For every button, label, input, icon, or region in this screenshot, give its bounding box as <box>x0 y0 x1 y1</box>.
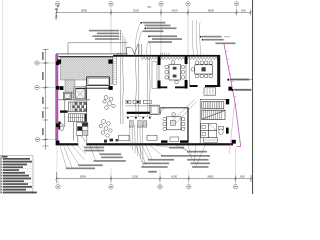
skylight outer frame <box>74 87 87 100</box>
stair flight 1 <box>68 102 86 112</box>
bottom wall door opening <box>78 143 86 146</box>
left rotated dim texts <box>42 52 44 135</box>
folding door zigzag <box>141 57 219 60</box>
wall next to X box <box>85 86 87 100</box>
small boxes under counter <box>129 121 146 127</box>
terrace parapet top wall <box>56 53 128 55</box>
room2 right wall <box>217 55 220 86</box>
room1 left wall <box>158 57 161 66</box>
top-left end marker <box>55 9 58 10</box>
bottom dimension line <box>57 172 252 183</box>
stair below room2 <box>204 88 216 95</box>
top dim ticks <box>55 11 251 13</box>
room3 diagonal leaders <box>172 100 195 122</box>
room3 walls <box>160 107 188 109</box>
small wc fixtures <box>58 122 60 130</box>
room3 door arc <box>160 108 167 115</box>
left grid bubbles <box>35 61 40 142</box>
top-mid annotation block A <box>143 22 177 32</box>
top-left annotation block <box>89 30 121 40</box>
wall columns on left wall <box>56 62 59 66</box>
svg-text:5100: 5100 <box>132 175 139 179</box>
top dimension line <box>57 9 251 18</box>
bottom grid bubbles <box>56 185 238 189</box>
top-mid annotation block B <box>148 35 182 43</box>
boundary tick marks <box>226 51 237 97</box>
pantry shelves <box>77 122 88 135</box>
room2 chairs <box>191 61 212 78</box>
magenta boundary diagonal <box>224 44 241 146</box>
top grid bubbles <box>55 2 238 6</box>
right wall black bits <box>226 99 229 104</box>
right stair flight B <box>202 110 225 119</box>
dumbwaiter shaft <box>63 92 71 99</box>
terrace corner columns <box>57 60 61 64</box>
terrace hatch <box>61 57 113 84</box>
hall green-wall strip <box>113 57 117 84</box>
plants cluster upper <box>103 96 115 110</box>
bottom-right annotation fan <box>136 145 205 166</box>
door leaf + arc bottom <box>77 135 79 142</box>
svg-text:750: 750 <box>147 6 152 9</box>
terrace hatch left extension <box>65 80 75 98</box>
svg-text:4100: 4100 <box>171 175 178 179</box>
left wall (magenta) <box>56 54 58 145</box>
room1 window ticks above wall <box>161 53 169 55</box>
right stair flight A <box>202 102 224 109</box>
toilet <box>218 126 223 129</box>
stair flight 2 <box>68 114 86 122</box>
sheet left border <box>1 0 3 156</box>
wall below planter <box>76 87 109 89</box>
bottom-right annotation texts <box>141 147 210 168</box>
svg-text:800: 800 <box>240 175 245 179</box>
main top wall <box>113 55 220 57</box>
room2 long table <box>195 65 213 74</box>
svg-text:9800: 9800 <box>208 9 215 13</box>
wc wall line <box>72 122 74 141</box>
grid extension lines below plan <box>57 147 236 179</box>
top dim texts <box>81 6 246 12</box>
svg-text:800: 800 <box>241 9 246 13</box>
room3 chairs <box>163 113 185 131</box>
bottom-left annotation fan <box>60 145 100 168</box>
black counter bar <box>127 112 152 114</box>
leaders from top-mid blocks <box>135 24 150 56</box>
bottom-left annotation texts <box>66 147 126 170</box>
svg-text:5800: 5800 <box>80 175 87 179</box>
svg-text:4100: 4100 <box>171 9 178 13</box>
sheet right border <box>252 0 254 194</box>
entrance double door arcs <box>127 44 139 55</box>
planter bench <box>87 77 110 85</box>
room1 table <box>169 65 180 81</box>
wavy leaders below core to bottom texts <box>130 125 143 162</box>
cabinet row <box>126 100 151 103</box>
hall cabinet right <box>152 62 157 89</box>
svg-text:5800: 5800 <box>81 9 88 13</box>
room1 chairs <box>165 61 185 84</box>
appliance box left <box>150 105 159 114</box>
right top leaders <box>192 20 201 55</box>
landing bar <box>60 110 68 112</box>
svg-text:5100: 5100 <box>133 9 140 13</box>
bottom center furniture boxes <box>119 135 129 141</box>
window box above bottom wall right <box>204 138 218 142</box>
right-side annotations <box>230 79 249 81</box>
bottom wall <box>56 143 233 145</box>
top-right annotation block C <box>202 36 236 44</box>
left grid: vertical dim line <box>43 49 49 150</box>
room3 bottom window <box>170 137 179 142</box>
room2 bottom wall <box>190 85 198 87</box>
svg-text:9800: 9800 <box>207 175 214 179</box>
room3 table <box>167 117 181 130</box>
skylight X box <box>75 89 85 99</box>
room1 right wall <box>185 57 188 65</box>
plants cluster lower <box>99 120 112 138</box>
wavy leaders through hall <box>120 56 150 124</box>
roof overhang line <box>68 43 128 54</box>
shower grid <box>201 124 217 138</box>
legend table bottom-left <box>0 156 33 194</box>
room1 bottom wall <box>161 86 168 88</box>
